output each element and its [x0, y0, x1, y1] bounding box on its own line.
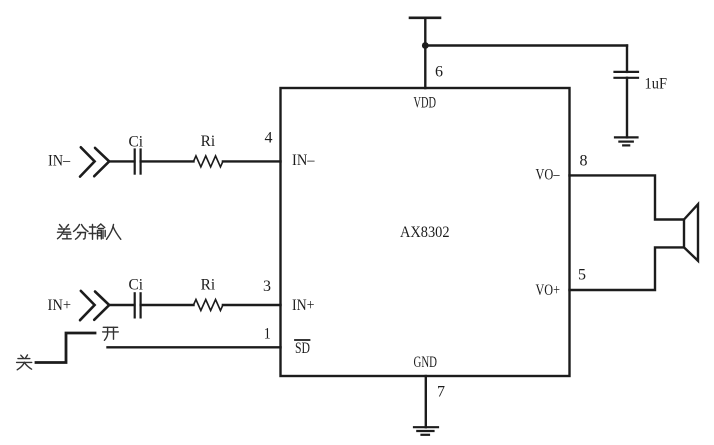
ground GND2 (U1 pin 7) — [414, 427, 438, 435]
wire Ri to U1 pin 4 — [223, 160, 281, 162]
wire J1 to Ci (IN- path) — [109, 160, 134, 162]
svg-text:GND: GND — [414, 354, 438, 371]
junction dot VDD node — [422, 42, 429, 49]
wire Ci to Ri (IN+ path) — [141, 304, 194, 306]
svg-text:Ri: Ri — [201, 277, 216, 294]
svg-text:Ci: Ci — [129, 133, 144, 150]
svg-text:5: 5 — [578, 266, 586, 283]
wire U1 pin 5 to speaker bottom — [570, 247, 684, 290]
svg-text:VO+: VO+ — [536, 282, 561, 299]
svg-text:Ri: Ri — [201, 133, 216, 150]
wire U1 pin 7 to ground — [425, 376, 427, 427]
svg-text:IN–: IN– — [48, 153, 71, 170]
svg-text:VDD: VDD — [414, 95, 437, 112]
svg-text:SD: SD — [295, 340, 310, 357]
svg-text:IN–: IN– — [292, 152, 315, 169]
capacitor C1 1uF — [615, 72, 639, 78]
svg-text:AX8302: AX8302 — [400, 224, 450, 241]
char 入 — [107, 225, 114, 240]
svg-text:3: 3 — [263, 278, 271, 295]
svg-text:IN+: IN+ — [48, 297, 72, 314]
wire U1 pin 8 to speaker top — [570, 175, 684, 219]
capacitor Ci (IN+ path) — [135, 293, 141, 317]
char 分 — [74, 225, 80, 232]
wire switch node to U1 pin 1 (SD) — [108, 346, 281, 348]
connector J2 input IN+ chevron — [80, 291, 109, 320]
svg-text:1uF: 1uF — [645, 75, 668, 92]
svg-text:7: 7 — [437, 383, 445, 400]
char 差 — [60, 225, 63, 228]
wire bypass capacitor bottom lead — [626, 78, 628, 138]
svg-text:VO–: VO– — [536, 166, 561, 183]
wire Ri to U1 pin 3 — [223, 304, 281, 306]
label 差分输入 (differential input) — [58, 224, 121, 239]
ground GND1 (bypass capacitor) — [615, 137, 638, 145]
svg-text:6: 6 — [435, 63, 443, 80]
switch SW1 lever wire (to 开 position) — [36, 333, 95, 363]
resistor Ri (IN- path) — [194, 156, 223, 167]
connector J1 input IN- chevron — [80, 147, 109, 176]
label 关 (off position) — [17, 355, 32, 370]
resistor Ri (IN+ path) — [194, 300, 223, 311]
label U1 pin name SD (with overline) — [295, 340, 310, 357]
svg-text:1: 1 — [264, 325, 271, 342]
svg-text:IN+: IN+ — [292, 297, 315, 314]
svg-text:8: 8 — [580, 153, 588, 170]
char 输 — [90, 226, 96, 228]
speaker LS1 — [684, 204, 698, 261]
wire J2 to Ci (IN+ path) — [109, 304, 134, 306]
wire VDD node to bypass capacitor — [425, 44, 627, 46]
wire Ci to Ri (IN- path) — [141, 160, 194, 162]
power symbol VDD bar — [410, 16, 440, 19]
svg-text:Ci: Ci — [129, 277, 144, 294]
IC U1 AX8302 body — [281, 88, 570, 376]
wire VDD bar to U1 pin 6 — [424, 18, 426, 88]
capacitor Ci (IN- path) — [135, 150, 141, 174]
svg-text:4: 4 — [265, 130, 273, 147]
label 开 (on position) — [103, 327, 119, 340]
wire bypass capacitor top lead — [626, 46, 628, 72]
